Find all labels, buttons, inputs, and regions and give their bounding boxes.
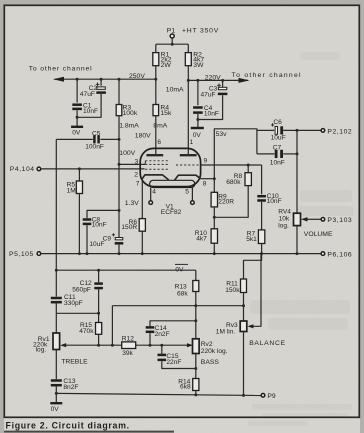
node 0V C12 junction [97,269,100,272]
svg-text:BASS: BASS [201,359,220,366]
svg-text:R12: R12 [122,335,134,342]
node splitter junction [171,43,174,46]
tube triode grid dashed pin 9 [176,164,201,166]
svg-text:VOLUME: VOLUME [304,231,333,238]
svg-text:53v: 53v [216,131,228,138]
wire R8 down to R9 junction [214,186,248,218]
svg-text:C7: C7 [273,145,282,152]
svg-text:TREBLE: TREBLE [61,359,88,366]
wire C13 to ground [55,386,57,402]
tube triode anode plate pin 1 [180,154,197,156]
capacitor C12 [98,270,100,282]
wire C1 to ground [76,110,78,126]
wire R4 to tube pin 6 [155,116,157,155]
resistor R14 [193,379,199,391]
capacitor C13 [51,379,62,382]
svg-text:6: 6 [157,139,161,146]
node rail R1 junction [154,78,157,81]
tube pentode cathode [142,175,169,180]
wire R1 to 250V rail [155,66,157,80]
wire mid horizontal line [112,305,243,307]
wire rail to C3 [222,80,224,87]
wire C2 to C1 bottom [77,94,101,117]
svg-text:P5,105: P5,105 [9,251,34,258]
node bus C8 [86,252,89,255]
ground 0V bottom [50,402,62,404]
node C7 junction [296,152,299,155]
node C3 C4 junction [196,118,199,121]
wire tube pin 3 screen grid [119,163,145,165]
tube triode cathode [175,175,201,180]
node R13 crossing [194,304,197,307]
svg-text:5: 5 [185,188,189,195]
capacitor C11 [51,297,62,300]
node bus R7 [260,252,263,255]
node P9 line R14 [194,393,197,396]
wiper arrow into RV2 [187,343,193,347]
wire R2 to 220V rail [187,66,189,81]
wire RV3 wiper up to bus [252,254,261,327]
resistor R11 [241,279,247,293]
svg-text:1M lin.: 1M lin. [216,329,236,336]
svg-text:ECF82: ECF82 [161,209,182,216]
svg-text:220R: 220R [218,199,234,206]
wire rail to C1 [76,79,78,102]
svg-text:Figure 2. Circuit diagram.: Figure 2. Circuit diagram. [6,420,130,430]
wire R3 line down to C9 [118,116,120,238]
wire left branch C5 down to 0V line [55,139,57,296]
node wiper midline [111,344,114,347]
wire C9 to P5 bus [118,245,120,254]
svg-text:2W: 2W [161,62,172,69]
wire 220V rail to tube pin 1 [187,80,189,155]
svg-text:10k: 10k [279,215,290,222]
terminal P2,102 [321,129,325,133]
resistor R1 [153,53,159,66]
ground 0V below C1 [71,126,83,128]
wire C6 to P2 [283,129,321,131]
svg-text:250V: 250V [129,73,145,80]
svg-text:470k: 470k [79,328,94,335]
svg-text:560pF: 560pF [72,286,91,293]
wire cathode to C6 [257,129,274,131]
node C6 junction [296,129,299,132]
wire R13 down to RV2 [195,292,197,339]
svg-text:10mA: 10mA [166,87,184,94]
capacitor C7 [275,150,278,158]
svg-text:10nF: 10nF [267,198,282,205]
node RV2 C15 junction [194,367,197,370]
terminal P1 [170,34,174,38]
potentiometer RV1 treble [53,333,60,350]
node rail C1 junction [76,78,79,81]
svg-text:1.3V: 1.3V [125,200,139,207]
wire 220V rail [188,79,248,81]
wire C11 to corner [55,304,57,314]
wire RV4 to P6 bus [296,226,298,254]
terminal P9 [261,394,265,398]
terminal P6,106 [321,252,325,256]
svg-text:47uF: 47uF [80,91,95,98]
wire grid corner down to C10 [261,165,263,194]
wire rail to C4 [197,80,199,105]
svg-text:P9: P9 [267,393,276,400]
wire 250V rail [55,78,156,80]
node C13 bottom junction [55,392,58,395]
svg-text:1M: 1M [67,188,76,195]
node grid R5 junction [78,167,81,170]
wire C8 to P5 bus [86,225,88,253]
wire pin8 to R9 [213,179,215,193]
wire C10 to R7 [261,202,263,230]
wire R14 to P9 line [195,391,197,395]
svg-text:To other channel: To other channel [232,72,302,79]
capacitor C6 [271,123,274,126]
wire R10 to P5 bus [213,243,215,253]
wire C4 to ground [197,114,199,128]
wire treble top link [56,312,98,314]
svg-text:10nF: 10nF [204,111,219,118]
capacitor C10 [257,195,266,198]
wire RV1 to C13 [55,350,57,380]
capacitor C5 [93,135,96,143]
node rail C2 junction [100,78,103,81]
wire R7 to P6 bus [261,244,263,254]
resistor R12 [122,342,136,349]
svg-text:0V: 0V [175,266,184,273]
wire rail to C2 [100,79,102,86]
wire R5 to P5 bus [78,194,80,254]
potentiometer RV4 volume [294,213,301,225]
resistor R15 [96,323,102,335]
node wiper C14 [149,344,152,347]
wire R6 to P5 bus [141,231,143,253]
resistor R5 [78,169,80,181]
wire P1 to splitter [171,38,173,44]
wire P5 P6 bus [41,253,321,255]
wire mid line corner down [111,306,113,346]
ground 0V below C4 [191,127,204,129]
wiper arrow RV1 [60,343,66,347]
svg-text:10nF: 10nF [92,222,107,229]
svg-text:3: 3 [135,158,139,165]
label 0V overlined [175,263,188,265]
wire C3 to C4 line [198,95,223,119]
wire C14 to wiper line [149,333,151,345]
svg-text:220k log.: 220k log. [201,348,228,355]
svg-text:P4,104: P4,104 [10,166,35,173]
resistor R6 [139,219,145,232]
svg-text:100V: 100V [119,150,135,157]
node R3 line C8 junction [118,209,121,212]
tube pentode control grid dashed [145,168,168,170]
node R3 line pin3 junction [118,163,121,166]
svg-text:68k: 68k [177,290,188,297]
arrow to other channel left [53,77,64,82]
node P9 line RV3 [242,394,245,397]
tube heater pin 5 [191,188,193,201]
svg-text:1: 1 [190,139,194,146]
wire C5 horizontal [56,138,93,140]
capacitor C9 [112,233,115,236]
resistor R7 [258,230,264,244]
node rail C3 junction [221,79,224,82]
wire RV3 to P9 line [243,332,245,396]
wire cathode up and over to C6 C7 [214,129,257,179]
svg-text:15k: 15k [160,110,172,117]
svg-text:9: 9 [204,158,208,165]
wire RV2 to R14 [195,354,197,379]
node pin8 junction [213,177,216,180]
capacitor C4 [193,106,203,109]
wire tube pin 7 to R6 [141,180,143,219]
svg-text:8n2F: 8n2F [63,384,78,391]
node bus R10 [213,252,216,255]
tube V1 ECF82 envelope [140,148,200,186]
node bus RV4 [296,252,299,255]
wire splitter horizontal [156,43,189,45]
tube heater boat [150,180,195,187]
node R9 R10 R8 junction [213,216,216,219]
svg-text:P3,103: P3,103 [327,217,352,224]
wire R9 to R10 [213,207,215,229]
capacitor C15 [161,345,163,353]
svg-text:4: 4 [152,188,156,195]
svg-text:180V: 180V [135,132,151,139]
capacitor C8 [83,218,92,221]
svg-text:100k: 100k [123,110,138,117]
capacitor C2 [96,83,100,87]
capacitor C3 [217,84,221,88]
wire 0V reference line [56,269,196,271]
potentiometer RV2 bass [193,339,200,354]
arrow to other channel right [239,78,250,83]
svg-text:150R: 150R [121,224,137,231]
node rail R3 junction [118,78,121,81]
svg-text:P6,106: P6,106 [327,252,352,259]
svg-text:BALANCE: BALANCE [249,340,286,347]
svg-text:220V: 220V [205,75,221,82]
svg-text:5k1: 5k1 [246,236,257,243]
node bus R6 [141,252,144,255]
capacitor C14 [150,321,196,326]
node C1 C2 junction [76,116,79,119]
wire bus jog to R11 [244,254,262,279]
svg-text:7: 7 [136,181,140,188]
svg-text:P1: P1 [167,27,176,34]
svg-text:+HT 350V: +HT 350V [182,27,219,34]
svg-text:680k: 680k [226,179,241,186]
wire bottom P9 line [56,393,261,395]
resistor R3 [118,79,120,104]
ghost print-through smudges [248,52,354,426]
svg-text:3W: 3W [193,62,204,69]
capacitor C1 [72,103,82,106]
svg-text:C5: C5 [92,130,101,137]
wire splitter to R2 [187,44,189,52]
wire C7 horizontal [257,153,275,155]
svg-text:2n2F: 2n2F [155,331,170,338]
resistor R4 [155,79,157,104]
svg-text:39k: 39k [122,350,133,357]
node wiper C15 [160,344,163,347]
wire P2 column down to volume pot [296,130,298,213]
svg-text:log.: log. [278,222,289,229]
tube heater pin 4 [150,188,152,201]
terminal P3,103 [321,218,325,222]
svg-text:8: 8 [203,180,207,187]
tube pentode grids dashed [145,160,168,162]
svg-text:10nF: 10nF [83,108,98,115]
wiper arrow RV4 [301,217,308,221]
node rail C4 junction [196,79,199,82]
wire treble-bass wiper line [64,344,121,346]
wire corner to RV1 [55,313,57,333]
svg-text:6k8: 6k8 [180,384,191,391]
node R11 mid junction [242,304,245,307]
wire C15 to RV2 bottom [162,361,196,368]
svg-text:To other channel: To other channel [29,66,93,73]
wiper arrow RV3 [247,324,253,328]
node C12 R15 junction [97,312,100,315]
resistor R9 [211,192,217,207]
svg-text:10nF: 10nF [270,160,285,167]
node R13 C14 junction [194,319,197,322]
svg-text:0V: 0V [193,132,202,139]
resistor R10 [211,229,217,243]
resistor R8 [247,165,249,173]
svg-text:4k7: 4k7 [196,236,207,243]
svg-text:0V: 0V [72,130,81,137]
node R3 line C5 junction [118,138,121,141]
wire R11 to RV3 [243,293,245,322]
wire splitter to R1 [155,44,157,52]
svg-text:log.: log. [36,347,47,354]
svg-text:2: 2 [134,171,138,178]
svg-text:330pF: 330pF [64,300,83,307]
svg-text:10uF: 10uF [271,135,286,142]
node rail R2 junction [187,79,190,82]
svg-text:22nF: 22nF [166,359,181,366]
svg-text:10uF: 10uF [89,241,104,248]
wire R15 to wiper line [98,334,100,345]
svg-text:150k: 150k [225,287,240,294]
svg-text:C6: C6 [273,119,282,126]
svg-text:0V: 0V [51,406,60,413]
node grid R8 junction [247,164,250,167]
svg-text:P2,102: P2,102 [327,128,352,135]
resistor R13 [195,270,197,280]
svg-text:1.8mA: 1.8mA [119,123,139,130]
resistor R2 [185,53,191,66]
wire pin 8 cathode [201,178,215,180]
wire C12 down to treble wire [98,289,100,322]
frame bottom-left rule under caption [4,431,174,433]
node wiper R15 [97,344,100,347]
node bus C9 [118,252,121,255]
svg-text:100nF: 100nF [85,144,104,151]
tube pentode anode plate pin 6 [146,154,163,156]
wire triode grid pin 9 [201,164,262,166]
svg-text:47uF: 47uF [201,92,216,99]
wire C8 horizontal to R3 line [87,210,119,218]
potentiometer RV3 balance [240,321,247,332]
node bus R5 [78,252,81,255]
wire grid line P4 to tube pin 2 [41,168,145,170]
paper grain texture [0,0,1,1]
node 0V left junction [55,269,58,272]
